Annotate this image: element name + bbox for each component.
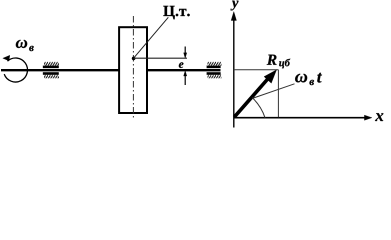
rotation arrow omega_v (3, 55, 28, 82)
shaft left segment (1, 69, 120, 71)
disk (119, 27, 147, 113)
bearing left (43, 62, 59, 78)
label omega_v (16, 40, 34, 51)
shaft right segment (147, 69, 221, 71)
disk centerline (132, 16, 134, 118)
leader line to angle label (253, 84, 295, 98)
label R_cb (267, 55, 290, 69)
y-axis (231, 12, 236, 128)
projection line horizontal (234, 69, 279, 71)
CG axis line (134, 57, 187, 59)
x-axis (234, 115, 372, 120)
center of gravity dot (132, 57, 135, 60)
label x (375, 113, 383, 121)
eccentricity dimension (184, 47, 187, 86)
vector R_cb (234, 70, 276, 117)
label e (179, 62, 184, 68)
label omega_v t (295, 73, 322, 85)
pointer line to CG (134, 17, 168, 57)
label Ts.t. (center of gravity) (163, 6, 189, 19)
angle arc omega_v t (252, 98, 265, 118)
projection line vertical (277, 70, 279, 118)
bearing right (207, 62, 222, 78)
label y (231, 1, 239, 11)
